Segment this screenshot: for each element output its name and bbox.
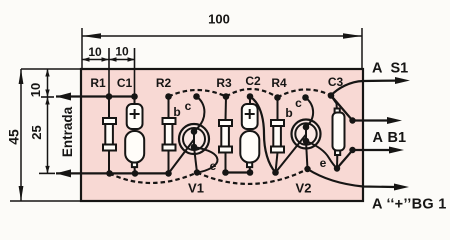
V1 base wire [169, 140, 195, 174]
node V2 collector top [302, 94, 309, 101]
wire output 2 (to B1 upper) [331, 96, 388, 121]
node output lower right [349, 147, 355, 153]
svg-text:C1: C1 [117, 76, 133, 90]
node C1 top [131, 93, 138, 100]
dashed wire bottom arc 1 [110, 173, 198, 183]
dimension line 10 10 [82, 59, 135, 61]
svg-text:Entrada: Entrada [60, 106, 75, 157]
plus sign C2 [245, 109, 255, 119]
wire output 3 (B1 lower) [337, 150, 390, 169]
dimension line 25 (left inner) [47, 97, 49, 173]
wire output BG1 [308, 169, 396, 187]
transistor V1 [169, 97, 218, 174]
node R2 top [165, 93, 172, 100]
capacitor C2 [240, 97, 259, 173]
extension bottom edge to left [10, 200, 81, 202]
extension lead C1 [134, 48, 136, 97]
svg-text:V1: V1 [188, 181, 204, 196]
node V1 emitter junction [194, 169, 200, 175]
capacitor C1 [125, 97, 144, 174]
transistor V2 [276, 98, 338, 173]
node R3 bottom [222, 169, 229, 176]
V2 emitter lead to junction [306, 141, 308, 169]
dimension line 45 (left) [20, 69, 22, 201]
wire output S1 [331, 81, 396, 96]
V1 collector wire [194, 97, 204, 132]
dimension extension line top-left [81, 28, 83, 69]
node R2 bottom [165, 170, 172, 177]
svg-text:45: 45 [6, 129, 22, 145]
resistor R3 [219, 97, 232, 173]
svg-text:C2: C2 [245, 74, 261, 88]
svg-text:c: c [295, 96, 302, 110]
dashed wire bottom arc 2 [197, 169, 308, 184]
node R4 top [274, 94, 281, 101]
board PCB outline [81, 69, 363, 201]
svg-text:B1: B1 [388, 130, 407, 146]
dashed wire top arc 1 [169, 90, 227, 97]
svg-text:e: e [320, 156, 327, 170]
svg-text:10: 10 [115, 45, 129, 59]
svg-text:V2: V2 [296, 181, 312, 196]
svg-text:S1: S1 [391, 61, 409, 77]
resistor R4 [271, 98, 284, 173]
svg-text:R4: R4 [271, 76, 287, 90]
node V1 collector top [193, 93, 200, 100]
svg-text:25: 25 [29, 125, 44, 139]
wire input bottom (Entrada) [56, 172, 169, 174]
svg-text:A: A [373, 130, 384, 146]
svg-text:10: 10 [28, 83, 43, 97]
node output upper right [349, 117, 355, 123]
dimension extension line top-right [361, 28, 363, 69]
resistor R2 [163, 97, 176, 174]
svg-text:R1: R1 [90, 76, 106, 90]
resistor R1 [103, 97, 116, 174]
svg-text:c: c [185, 99, 192, 113]
node R1 top [106, 93, 113, 100]
svg-text:A: A [372, 61, 383, 77]
V2 base wire [276, 135, 307, 173]
V2 collector wire [306, 98, 314, 128]
dashed wire top arc 2 [226, 89, 278, 98]
svg-text:b: b [173, 105, 180, 119]
tick at y=97 [41, 96, 54, 98]
svg-text:100: 100 [208, 12, 230, 27]
node R4 bottom [272, 169, 279, 176]
wire input top (Entrada) [56, 95, 134, 97]
svg-text:e: e [210, 159, 217, 173]
svg-text:A ‘‘+’’BG 1: A ‘‘+’’BG 1 [372, 197, 447, 213]
node C2 bottom [247, 169, 254, 176]
node C1 bottom [132, 170, 139, 177]
svg-text:b: b [285, 106, 292, 120]
extension top edge to left [21, 68, 81, 70]
wire C2 top to R4 bottom [250, 97, 276, 173]
node C3 bottom junction [334, 165, 340, 171]
node V2 emitter junction [304, 166, 310, 172]
dimension line 10 (left inner) [47, 69, 49, 97]
V2 emitter wire [306, 141, 337, 169]
capacitor C3 [331, 96, 345, 169]
node R1 bottom [106, 170, 113, 177]
svg-text:10: 10 [88, 45, 102, 59]
svg-text:R2: R2 [156, 76, 172, 90]
plus sign C1 [130, 109, 140, 119]
V1 emitter wire [194, 147, 218, 173]
node C3 top [328, 92, 335, 99]
V1 emitter lead to junction [194, 147, 197, 173]
svg-text:R3: R3 [216, 76, 232, 90]
tick at y=173.4 [39, 172, 55, 174]
node C2 top [247, 93, 254, 100]
extension lead R1 [108, 48, 110, 97]
dimension line 100 [82, 35, 362, 37]
dashed wire top arc 3 [278, 89, 332, 97]
wire R3-C2 bottom segment [226, 171, 251, 173]
node R3 top [223, 93, 230, 100]
